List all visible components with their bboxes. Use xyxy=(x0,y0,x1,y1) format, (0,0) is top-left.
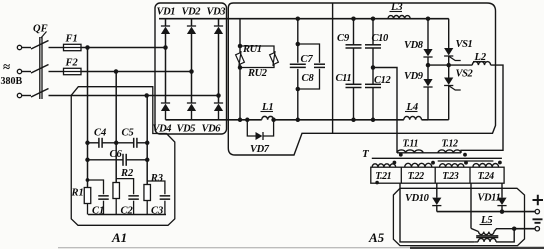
svg-text:F2: F2 xyxy=(65,58,79,69)
node C6 right xyxy=(145,158,150,163)
inductor L5 core lines xyxy=(476,235,498,237)
switch QF blade 3 xyxy=(31,89,49,98)
winding T.22 xyxy=(405,163,432,167)
node C8 top xyxy=(296,42,301,47)
wire T.23/T.24 junction to L5 xyxy=(470,183,472,228)
node phase3-A1 tap xyxy=(144,93,149,98)
wire T.21/T.22 junction into A5 return path xyxy=(400,183,475,242)
snubber/filter block A2 outline xyxy=(228,3,495,155)
svg-text:R2: R2 xyxy=(120,168,134,179)
wire midpoint to L2 xyxy=(449,64,473,66)
svg-text:C12: C12 xyxy=(374,75,391,86)
thyristor VS1 xyxy=(444,48,453,55)
inductor L3 xyxy=(388,16,410,19)
wire top bus to VS column xyxy=(410,18,449,20)
svg-text:R1: R1 xyxy=(71,188,84,199)
svg-text:C11: C11 xyxy=(336,73,352,84)
inductor L1 xyxy=(262,116,274,119)
scan artifact baseline xyxy=(58,247,410,249)
fuse F1 xyxy=(64,44,82,50)
node C12 bus xyxy=(371,118,376,123)
thyristor VS1 column wire xyxy=(448,19,450,48)
svg-text:T.22: T.22 xyxy=(408,171,424,182)
diode VD4 xyxy=(161,102,170,104)
block divider line xyxy=(332,3,334,133)
negative output terminal xyxy=(535,227,539,231)
node C10-C12 midpoint xyxy=(371,65,376,70)
input terminal phase 1 xyxy=(17,45,21,49)
svg-text:C5: C5 xyxy=(122,128,134,139)
positive output terminal xyxy=(535,209,539,213)
thyristor VS2 xyxy=(444,78,453,85)
svg-text:T.12: T.12 xyxy=(442,139,458,150)
inductor L4 xyxy=(404,116,422,119)
DC negative bottom bus xyxy=(166,119,262,121)
block A1 outline xyxy=(71,87,175,226)
fuse F2 xyxy=(64,68,82,74)
svg-text:RU2: RU2 xyxy=(247,68,268,79)
wire A1 tap 2 xyxy=(115,72,117,183)
node VD7 right xyxy=(271,118,276,123)
svg-text:VD4: VD4 xyxy=(153,124,172,135)
diode VD7 bypass wire xyxy=(247,120,255,136)
diode VD2 xyxy=(191,19,193,26)
switch QF linkage bar xyxy=(39,37,41,99)
svg-text:VS2: VS2 xyxy=(456,69,474,80)
svg-text:R3: R3 xyxy=(150,173,163,184)
node C6 left xyxy=(85,158,90,163)
node RU bus xyxy=(238,118,243,123)
node RU top xyxy=(238,44,243,49)
capacitor C2 xyxy=(128,195,139,197)
svg-text:C6: C6 xyxy=(110,149,123,160)
capacitor C5 xyxy=(133,138,135,148)
node VD8 column xyxy=(426,16,431,21)
diode VD8 xyxy=(423,49,432,56)
svg-text:VD3: VD3 xyxy=(207,7,226,18)
inductor L5 top winding xyxy=(471,228,479,231)
capacitor C3 xyxy=(160,195,171,197)
DC positive top bus xyxy=(159,18,449,20)
wire L5 bottom winding return xyxy=(496,229,514,242)
capacitor C12 xyxy=(365,83,381,85)
A1 bottom bus xyxy=(88,214,166,216)
capacitor C6 xyxy=(122,154,124,166)
capacitor row wire C6 xyxy=(88,159,124,161)
capacitor C1 xyxy=(98,195,109,197)
node phase1-A1 tap xyxy=(85,45,90,50)
winding T.23 xyxy=(440,164,464,168)
node C11 bus xyxy=(351,118,356,123)
svg-text:VD2: VD2 xyxy=(182,7,202,18)
wire C10/C12 midpoint to primary riser xyxy=(373,68,397,153)
winding T.21 xyxy=(372,164,396,167)
switch QF blade 2 xyxy=(31,65,49,74)
positive output wire xyxy=(437,211,535,213)
node phase2-A1 tap xyxy=(114,69,119,74)
diode VD9 xyxy=(423,79,432,86)
wire T.24 end to VD11 xyxy=(501,183,503,197)
node RU bottom xyxy=(238,65,243,70)
svg-text:C9: C9 xyxy=(337,33,350,44)
label plus xyxy=(533,195,544,205)
winding T.24 xyxy=(473,164,499,168)
diode VD8 column wire xyxy=(427,19,429,49)
capacitor C9 xyxy=(346,44,362,46)
node phase2-VD2 xyxy=(189,69,194,74)
diode VD11 xyxy=(497,198,506,205)
wire phase 1 to bridge xyxy=(81,47,166,49)
wire A1 tap 1 xyxy=(87,48,89,188)
wire phase 2 to bridge xyxy=(81,71,192,73)
node midpoint VS xyxy=(446,63,451,68)
svg-text:C10: C10 xyxy=(372,33,389,44)
node C8 bottom xyxy=(296,87,301,92)
diode VD1 xyxy=(165,19,167,26)
switch QF blade 1 xyxy=(31,41,49,50)
resistor R1 xyxy=(84,188,91,204)
node secondary dot 4 xyxy=(498,161,502,165)
wire L5 to negative terminal xyxy=(514,228,535,230)
wire L2 to transformer primary riser xyxy=(461,65,503,153)
svg-text:F1: F1 xyxy=(65,34,78,45)
svg-text:VD1: VD1 xyxy=(157,7,176,18)
svg-text:T.11: T.11 xyxy=(403,139,419,150)
transformer core line upper xyxy=(372,157,502,159)
capacitor C1 branch xyxy=(88,180,104,194)
svg-text:C7: C7 xyxy=(301,54,314,65)
capacitor C4 xyxy=(98,138,100,148)
transformer core line lower xyxy=(438,160,494,162)
wire phase 2 to fuse xyxy=(49,71,64,73)
block A5 outline xyxy=(393,188,524,245)
winding T.11 xyxy=(397,150,423,153)
diode VD5 xyxy=(187,102,196,104)
node phase1-VD1 xyxy=(163,45,168,50)
svg-text:C4: C4 xyxy=(94,128,106,139)
varistor RU1 xyxy=(234,51,246,66)
node VD11 output xyxy=(500,209,505,214)
capacitor C3 branch xyxy=(147,181,165,194)
svg-text:VD5: VD5 xyxy=(177,124,196,135)
node C7 top bus xyxy=(296,16,301,21)
svg-text:380В: 380В xyxy=(1,76,23,87)
diode VD7 xyxy=(256,132,263,140)
wire phase 3 to bridge xyxy=(49,95,219,97)
node secondary dot 1 xyxy=(393,161,397,165)
inductor L2 xyxy=(472,62,490,66)
svg-text:C8: C8 xyxy=(302,73,315,84)
svg-text:VD11: VD11 xyxy=(477,193,500,204)
capacitor row wire C4-C5 xyxy=(88,142,99,144)
resistor R3 xyxy=(144,185,151,201)
wire A1 tap 3 xyxy=(146,96,148,185)
node C7 bus bottom xyxy=(296,118,301,123)
capacitor C9/C11 branch wire xyxy=(353,19,355,45)
resistor R2 xyxy=(113,183,120,199)
node C10 bus xyxy=(371,16,376,21)
svg-text:A1: A1 xyxy=(111,230,127,245)
capacitor C10 xyxy=(365,44,381,46)
varistor branch wire xyxy=(239,19,241,53)
svg-text:VD9: VD9 xyxy=(404,71,424,82)
svg-text:≈: ≈ xyxy=(3,59,10,74)
varistor RU2 branch xyxy=(240,46,274,53)
node phase3-VD3 xyxy=(216,93,221,98)
diode VD10 xyxy=(432,198,441,205)
node R1 top xyxy=(86,178,90,182)
capacitor C8 branch xyxy=(298,44,320,63)
wire VD-VS midpoint link xyxy=(428,64,449,66)
svg-text:T.23: T.23 xyxy=(442,171,458,182)
capacitor C7 xyxy=(290,63,306,65)
node C4 left xyxy=(85,141,90,146)
svg-text:VD8: VD8 xyxy=(404,40,424,51)
capacitor C10/C12 branch wire xyxy=(372,19,374,45)
svg-text:VD7: VD7 xyxy=(250,144,270,155)
label minus xyxy=(533,219,543,223)
node T.21 left terminal xyxy=(375,181,379,185)
node C4/C5 xyxy=(114,141,119,146)
transformer primary wire xyxy=(397,152,461,154)
svg-text:T.24: T.24 xyxy=(478,171,494,182)
input terminal phase 2 xyxy=(17,69,21,73)
node midpoint VD xyxy=(426,63,431,68)
node secondary dot 3 xyxy=(464,161,468,165)
winding T.12 xyxy=(438,150,461,153)
node C9 bus xyxy=(351,16,356,21)
wire VD column to VS column bottom link xyxy=(428,119,449,121)
diode VD6 xyxy=(214,102,223,104)
bridge rectifier block outline (VD1-VD6) xyxy=(155,3,227,134)
svg-text:VD6: VD6 xyxy=(202,124,222,135)
svg-text:RU1: RU1 xyxy=(242,44,262,55)
svg-text:A5: A5 xyxy=(368,230,385,245)
node VD7 left xyxy=(245,118,250,123)
node C5 right xyxy=(145,141,150,146)
node primary dot right xyxy=(463,153,467,157)
inductor L5 bottom winding xyxy=(478,238,496,241)
svg-text:VS1: VS1 xyxy=(456,39,473,50)
capacitor C2 branch xyxy=(116,179,133,195)
svg-text:T.21: T.21 xyxy=(375,171,391,182)
wire T.22/T.23 junction to VD10 xyxy=(436,183,438,197)
capacitor C7 branch wire xyxy=(297,19,299,63)
secondary winding box row xyxy=(371,167,504,183)
svg-text:VD10: VD10 xyxy=(405,193,430,204)
node primary dot left xyxy=(399,153,403,157)
input terminal phase 3 xyxy=(17,93,21,97)
capacitor C11 xyxy=(346,83,362,85)
diode VD3 xyxy=(218,19,220,26)
node L5 negative junction xyxy=(512,226,517,231)
wire phase 1 to fuse xyxy=(49,47,64,49)
node secondary dot 2 xyxy=(431,161,435,165)
